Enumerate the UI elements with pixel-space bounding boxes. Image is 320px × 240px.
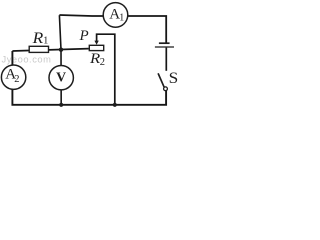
switch hinge circle [164,87,168,91]
resistor R1 box [29,46,48,52]
svg-text:Jyeoo.com: Jyeoo.com [2,55,52,65]
wire middle row: left corner, through R1, to R2 left terminal [12,49,88,51]
ammeter A1 [103,3,128,28]
switch S blade [158,73,164,87]
svg-text:S: S [169,70,179,87]
battery bottom plate (long thin) [155,46,174,48]
voltmeter V [49,66,73,90]
wire battery to switch [165,48,167,71]
node junction dot at R1/R2/voltmeter node [59,48,63,52]
rheostat R2 wiper arrowhead [94,41,98,45]
node junction dot voltmeter to bottom rail [59,103,63,107]
battery top plate (short thick) [159,42,170,44]
rheostat R2 box [89,45,103,50]
svg-text:1: 1 [43,36,48,47]
node junction dot wiper lead to bottom rail [113,103,117,107]
wire vertical through junction and voltmeter to bottom rail [59,15,61,105]
svg-text:2: 2 [14,74,19,85]
svg-text:R: R [89,51,100,67]
wire rheostat wiper lead: up from wiper, right, down to bottom rail [97,34,115,105]
svg-text:V: V [56,69,66,84]
svg-text:2: 2 [100,57,105,68]
svg-text:P: P [79,28,89,44]
svg-text:1: 1 [119,13,124,24]
wire top rail: from node above junction, across A1, to top-right corner [59,15,166,43]
wire left loop: left vertical through A2, bottom rail, right lower vertical [12,51,166,105]
ammeter A2 [1,65,25,89]
svg-text:R: R [31,30,43,47]
